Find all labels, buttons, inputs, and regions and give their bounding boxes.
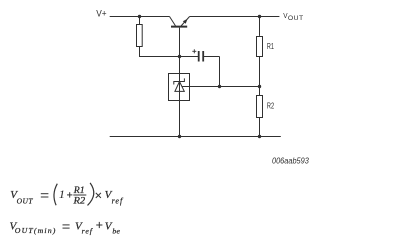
label VOUT bbox=[283, 11, 303, 22]
wire: V+ rail to collector bbox=[110, 16, 170, 18]
formula 2: VOUT(min) = Vref + Vbe bbox=[10, 220, 121, 235]
wire: reference pin to divider midpoint bbox=[182, 86, 260, 88]
wire: base / cathode vertical down to bottom rail bbox=[179, 28, 181, 137]
node: V+ rail / bias resistor junction bbox=[138, 15, 141, 18]
label 006aab593 (figure id) bbox=[272, 156, 309, 165]
wire: R2 bottom lead bbox=[259, 117, 261, 136]
svg-text:OUT: OUT bbox=[17, 197, 34, 206]
svg-text:1: 1 bbox=[59, 189, 65, 201]
resistor R1 bbox=[257, 37, 263, 57]
svg-text:V: V bbox=[283, 11, 287, 20]
label R2 bbox=[267, 102, 275, 111]
node: capacitor / reference junction bbox=[218, 85, 221, 88]
wire: junction down to bias resistor bbox=[139, 17, 141, 25]
svg-text:ref: ref bbox=[112, 197, 124, 206]
node: base / cathode / capacitor junction bbox=[178, 55, 181, 58]
svg-text:R2: R2 bbox=[267, 102, 275, 111]
label R1 bbox=[267, 42, 274, 51]
svg-text:V+: V+ bbox=[96, 8, 106, 18]
svg-text:be: be bbox=[112, 226, 120, 235]
svg-text:R1: R1 bbox=[267, 42, 274, 51]
transistor (NPN series pass) bbox=[170, 17, 190, 27]
wire: R1 bottom to divider midpoint bbox=[259, 57, 261, 87]
node: VOUT rail / R1 junction bbox=[258, 15, 261, 18]
wire: bias resistor bottom lead bbox=[140, 46, 180, 56]
resistor (bias, unlabelled) bbox=[137, 25, 143, 47]
capacitor (polarized compensation cap) bbox=[180, 49, 220, 86]
node: R1 / R2 divider midpoint bbox=[258, 85, 261, 88]
wire: R1 top lead bbox=[259, 17, 261, 36]
svg-text:OUT: OUT bbox=[288, 15, 304, 22]
shunt reference (boxed zener, TL431-style) bbox=[169, 74, 190, 101]
node: R2 / bottom rail junction bbox=[258, 135, 261, 138]
svg-text:OUT(min): OUT(min) bbox=[15, 226, 57, 235]
wire: emitter rail to VOUT bbox=[190, 16, 280, 18]
label V+ bbox=[96, 8, 106, 18]
resistor R2 bbox=[257, 96, 263, 118]
svg-text:R2: R2 bbox=[72, 197, 85, 207]
svg-text:ref: ref bbox=[82, 227, 94, 236]
svg-text:006aab593: 006aab593 bbox=[272, 156, 309, 165]
wire: midpoint to R2 bbox=[259, 87, 261, 96]
node: anode / bottom rail junction bbox=[178, 135, 181, 138]
wire: bottom common rail bbox=[110, 136, 281, 138]
formula 1: VOUT = (1 + R1/R2) x Vref bbox=[10, 183, 124, 207]
